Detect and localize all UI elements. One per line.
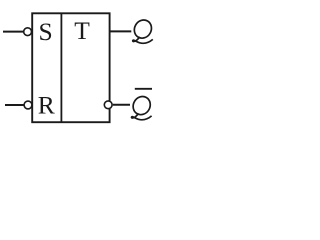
wire R input — [5, 104, 24, 106]
node label Q — [131, 17, 155, 43]
node label Q-bar — [130, 93, 154, 119]
inversion bubble on Q-bar output — [104, 101, 112, 109]
svg-text:R: R — [38, 90, 55, 119]
latch body box U1 — [32, 13, 109, 122]
svg-text:S: S — [39, 17, 53, 46]
divider line between input column and latch body — [60, 13, 62, 122]
overline of Q-bar — [135, 88, 152, 90]
inversion bubble on R input — [24, 101, 32, 109]
wire S input — [3, 31, 24, 33]
svg-text:T: T — [74, 16, 90, 45]
wire Q output — [110, 30, 131, 32]
wire Q-bar output — [113, 104, 130, 106]
inversion bubble on S input — [24, 28, 32, 36]
